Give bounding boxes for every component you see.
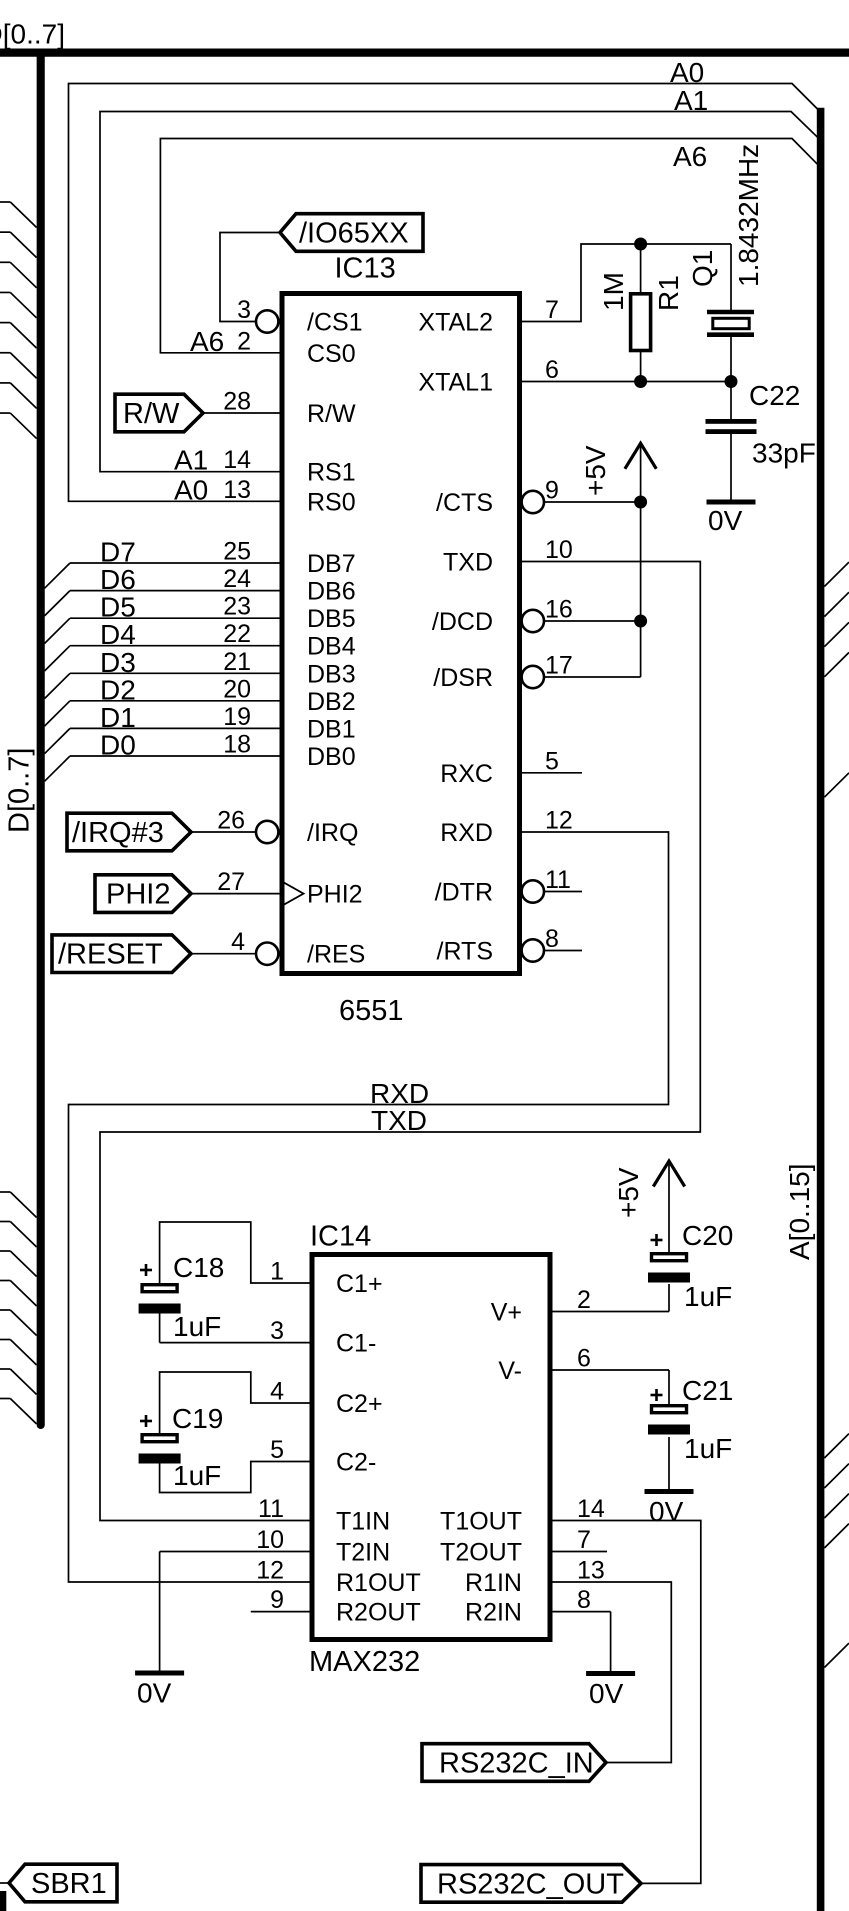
svg-text:0V: 0V [649, 1496, 684, 1527]
power +5V arrow (C20) [653, 1161, 684, 1252]
IC U14 MAX232 body [312, 1255, 550, 1640]
svg-text:13: 13 [577, 1557, 605, 1585]
flag PHI2 [95, 875, 191, 913]
label D0 [100, 730, 136, 761]
hatch marks right top (A bus) [824, 562, 849, 797]
label C21 [682, 1375, 733, 1406]
wire T1OUT pin 14 to RS232C_OUT [550, 1521, 701, 1884]
svg-text:7: 7 [545, 296, 559, 324]
svg-text:SBR1: SBR1 [31, 1868, 107, 1900]
junction rail pin16 [634, 615, 647, 628]
hatch marks left bottom (D bus) [0, 1192, 37, 1424]
wire V+ pin 2 to C20 [550, 1284, 669, 1312]
junction +5V pin9 [634, 496, 647, 509]
bus D[0..7] vertical [37, 53, 45, 1425]
svg-text:DB4: DB4 [307, 633, 356, 661]
label RXD [370, 1078, 429, 1109]
svg-text:/IRQ#3: /IRQ#3 [72, 817, 164, 849]
svg-text:5: 5 [545, 747, 559, 775]
IC13 pin 23 DB5 [223, 593, 355, 634]
svg-text:1uF: 1uF [684, 1281, 732, 1312]
IC13 pin 9 /CTS [436, 477, 559, 518]
svg-text:0V: 0V [589, 1678, 624, 1709]
wire net D1 [45, 728, 283, 753]
svg-text:C1+: C1+ [336, 1270, 383, 1298]
svg-text:D[0..7]: D[0..7] [0, 19, 65, 50]
svg-text:A6: A6 [190, 326, 224, 357]
svg-text:7: 7 [577, 1526, 591, 1554]
svg-text:1uF: 1uF [173, 1460, 221, 1491]
wire C18 top to pin 1 [160, 1222, 312, 1283]
svg-text:1uF: 1uF [684, 1433, 732, 1464]
svg-text:14: 14 [577, 1495, 605, 1523]
svg-text:/DTR: /DTR [435, 879, 493, 907]
IC13 pin 11 /DTR [435, 866, 582, 907]
label A1 (at pin 14) [174, 445, 208, 476]
svg-text:/DSR: /DSR [433, 664, 493, 692]
IC13 pin 21 DB3 [223, 648, 355, 689]
flag /IO65XX [280, 214, 423, 252]
label C20 [682, 1220, 733, 1251]
svg-text:D1: D1 [100, 702, 136, 733]
svg-text:12: 12 [256, 1557, 284, 1585]
bus label D[0..7] vertical [4, 748, 36, 833]
svg-text:8: 8 [545, 925, 559, 953]
IC14 pin 6 V- [498, 1345, 591, 1386]
svg-text:C18: C18 [173, 1252, 224, 1283]
svg-text:2: 2 [577, 1286, 591, 1314]
wire C18 bottom to pin 3 [160, 1314, 312, 1343]
svg-text:19: 19 [223, 703, 251, 731]
svg-text:25: 25 [223, 538, 251, 566]
hatch marks right bottom (A bus) [824, 1434, 849, 1668]
wire /DSR pin 17 to rail [544, 676, 641, 678]
flag RS232C_IN [422, 1744, 606, 1782]
flag R/W [115, 394, 203, 432]
IC U13 6551 body [282, 294, 520, 974]
IC13 pin 17 /DSR [433, 652, 573, 693]
wire net A6 [160, 139, 817, 353]
svg-text:18: 18 [223, 731, 251, 759]
svg-text:RS1: RS1 [307, 459, 356, 487]
svg-text:/RESET: /RESET [58, 939, 163, 971]
svg-text:A1: A1 [674, 85, 708, 116]
svg-text:DB1: DB1 [307, 715, 356, 743]
svg-text:RS232C_IN: RS232C_IN [439, 1748, 594, 1780]
svg-text:DB0: DB0 [307, 743, 356, 771]
wire net A0 [69, 84, 819, 502]
svg-text:PHI2: PHI2 [106, 879, 170, 911]
label C19 [172, 1403, 223, 1434]
wire C21 to ground [668, 1437, 670, 1489]
svg-text:RXD: RXD [440, 819, 493, 847]
svg-text:D7: D7 [100, 537, 136, 568]
label A0 (top) [670, 57, 704, 88]
svg-text:TXD: TXD [371, 1105, 427, 1136]
svg-text:DB5: DB5 [307, 605, 356, 633]
label /IO65XX [299, 218, 409, 250]
IC13 pin 3 /CS1 [237, 296, 363, 337]
svg-text:33pF: 33pF [752, 438, 816, 469]
wire V- pin 6 to C21 [550, 1370, 669, 1404]
wire C19 bottom to pin 5 [160, 1462, 312, 1493]
svg-text:/RTS: /RTS [437, 938, 494, 966]
label 6551 [339, 995, 404, 1027]
svg-text:/CTS: /CTS [436, 489, 493, 517]
svg-text:+5V: +5V [580, 445, 611, 496]
svg-text:0V: 0V [708, 505, 743, 536]
IC13 pin 5 RXC [440, 747, 582, 788]
label C22 [749, 380, 800, 411]
wire +5V rail vertical [640, 502, 642, 677]
IC14 pin 10 T2IN [256, 1526, 390, 1567]
label A6 (at pin 2) [190, 326, 224, 357]
IC14 pin 13 R1IN [465, 1557, 605, 1598]
bus D[0..7] horizontal (top) [0, 48, 849, 56]
svg-text:1M: 1M [598, 272, 629, 311]
resistor R1 [631, 244, 651, 382]
ground at C21 [645, 1489, 694, 1494]
wire net D4 [45, 646, 283, 671]
wire net D2 [45, 701, 283, 726]
svg-text:/CS1: /CS1 [307, 309, 363, 337]
flag RS232C_OUT [421, 1865, 641, 1903]
label D6 [100, 564, 136, 595]
label PHI2 [106, 879, 170, 911]
bus A[0..15] vertical [817, 108, 825, 1911]
svg-text:T2IN: T2IN [336, 1539, 390, 1567]
svg-text:IC13: IC13 [335, 253, 396, 285]
IC13 pin 25 DB7 [223, 538, 355, 579]
svg-text:D5: D5 [100, 592, 136, 623]
label 0V right [589, 1678, 624, 1709]
IC13 pin 10 TXD [443, 536, 573, 577]
wire R1IN pin 13 to RS232C_IN [550, 1582, 671, 1763]
svg-text:17: 17 [545, 652, 573, 680]
svg-text:DB3: DB3 [307, 660, 356, 688]
label D5 [100, 592, 136, 623]
svg-text:28: 28 [223, 388, 251, 416]
svg-text:TXD: TXD [443, 549, 493, 577]
capacitor C18 [139, 1285, 181, 1314]
svg-text:11: 11 [258, 1495, 284, 1523]
svg-text:XTAL1: XTAL1 [418, 369, 493, 397]
cut-off mark bottom left [0, 1891, 6, 1911]
svg-text:/RES: /RES [307, 941, 365, 969]
junction at R1 top [634, 238, 647, 251]
wire XTAL2 pin 7 net [520, 244, 732, 322]
label MAX232 [309, 1646, 420, 1678]
IC13 pin 20 DB2 [223, 675, 355, 716]
label RS232C_OUT [437, 1869, 624, 1901]
svg-text:XTAL2: XTAL2 [418, 309, 493, 337]
svg-text:A1: A1 [174, 445, 208, 476]
svg-text:2: 2 [237, 327, 251, 355]
wire net D6 [45, 591, 283, 616]
label IC14 [310, 1221, 371, 1253]
svg-text:C2-: C2- [336, 1449, 376, 1477]
label /IRQ#3 [72, 817, 164, 849]
wire PHI2 to pin 27 [191, 893, 282, 895]
svg-text:C22: C22 [749, 380, 800, 411]
wire /CTS pin 9 to +5V [544, 501, 641, 503]
IC13 pin 14 RS1 [223, 446, 355, 487]
svg-text:10: 10 [545, 536, 573, 564]
svg-text:12: 12 [545, 807, 573, 835]
svg-text:RS0: RS0 [307, 488, 356, 516]
svg-text:3: 3 [270, 1317, 284, 1345]
wire /RESET to pin 4 [191, 953, 256, 955]
label 0V left [137, 1678, 172, 1709]
svg-text:A0: A0 [174, 474, 208, 505]
label /RESET [58, 939, 163, 971]
svg-text:D4: D4 [100, 619, 136, 650]
label R1 [653, 275, 684, 311]
power +5V arrow (6551) [625, 443, 656, 502]
wire XTAL1 pin 6 net [520, 381, 732, 383]
wire SBR1 stub [0, 1882, 9, 1884]
flag /IRQ#3 [67, 813, 191, 851]
label 1M [598, 272, 629, 311]
label A6 (top) [673, 141, 707, 172]
svg-text:CS0: CS0 [307, 340, 356, 368]
label 0V at C21 [649, 1496, 684, 1527]
flag /RESET [52, 935, 191, 973]
bus label A[0..15] vertical [784, 1163, 815, 1260]
wire net D0 [45, 756, 283, 781]
wire net RXD [69, 832, 669, 1582]
capacitor C19 [139, 1435, 181, 1464]
svg-text:A[0..15]: A[0..15] [784, 1163, 815, 1260]
IC14 pin 7 T2OUT [440, 1526, 591, 1567]
label + C19 [140, 1415, 152, 1427]
wire /DCD pin 16 to rail [544, 620, 641, 622]
IC14 pin 5 C2- [270, 1436, 376, 1477]
capacitor C22 [706, 382, 757, 500]
wire net D7 [45, 563, 283, 588]
svg-text:D2: D2 [100, 674, 136, 705]
svg-text:/IO65XX: /IO65XX [299, 218, 409, 250]
svg-text:C20: C20 [682, 1220, 733, 1251]
svg-text:10: 10 [256, 1526, 284, 1554]
label + C18 [140, 1264, 152, 1276]
label D7 [100, 537, 136, 568]
junction R1 bottom [634, 375, 647, 388]
capacitor C21 [648, 1406, 690, 1435]
capacitor C20 [648, 1254, 690, 1283]
label 1uF C21 [684, 1433, 732, 1464]
IC14 pin 14 T1OUT [440, 1495, 605, 1536]
svg-text:26: 26 [217, 807, 245, 835]
svg-text:D6: D6 [100, 564, 136, 595]
wire C19 top to pin 4 [160, 1372, 312, 1433]
label + C21 [651, 1389, 663, 1401]
label SBR1 [31, 1868, 107, 1900]
IC14 pin 8 R2IN [465, 1586, 591, 1627]
svg-text:RS232C_OUT: RS232C_OUT [437, 1869, 624, 1901]
svg-text:21: 21 [223, 648, 251, 676]
flag SBR1 [9, 1864, 117, 1902]
label 1uF C19 [173, 1460, 221, 1491]
svg-text:6: 6 [577, 1345, 591, 1373]
svg-text:C1-: C1- [336, 1330, 376, 1358]
svg-text:R1: R1 [653, 275, 684, 311]
label D4 [100, 619, 136, 650]
label TXD [371, 1105, 427, 1136]
svg-text:R1IN: R1IN [465, 1569, 522, 1597]
bus label D[0..7] top [0, 19, 65, 50]
IC13 pin 4 /RES [231, 928, 365, 969]
svg-text:RXC: RXC [440, 760, 493, 788]
svg-text:D3: D3 [100, 647, 136, 678]
wire T2OUT pin 7 stub [550, 1551, 607, 1553]
IC14 pin 11 T1IN [258, 1495, 390, 1536]
svg-text:1: 1 [270, 1258, 284, 1286]
svg-text:R/W: R/W [123, 398, 180, 430]
svg-text:D[0..7]: D[0..7] [4, 748, 36, 833]
svg-text:DB2: DB2 [307, 688, 356, 716]
label 0V at C22 [708, 505, 743, 536]
IC13 pin 19 DB1 [223, 703, 355, 744]
svg-text:R2IN: R2IN [465, 1599, 522, 1627]
label A0 (at pin 13) [174, 474, 208, 505]
svg-text:IC14: IC14 [310, 1221, 371, 1253]
svg-text:1uF: 1uF [173, 1311, 221, 1342]
IC14 pin 9 R2OUT [270, 1586, 421, 1627]
IC13 pin 16 /DCD [432, 596, 573, 637]
label 33pF [752, 438, 816, 469]
IC13 pin 12 RXD [440, 807, 573, 848]
svg-text:/IRQ: /IRQ [307, 819, 358, 847]
IC13 pin 28 R/W [223, 388, 356, 429]
label 1.8432MHz [733, 144, 764, 287]
svg-text:A0: A0 [670, 57, 704, 88]
IC13 pin 24 DB6 [223, 565, 355, 606]
IC13 pin 27 PHI2 [217, 868, 362, 909]
IC13 pin 13 RS0 [223, 476, 355, 517]
IC13 pin 7 XTAL2 [418, 296, 558, 337]
wire net A1 [100, 112, 818, 472]
label A1 (top) [674, 85, 708, 116]
svg-text:+5V: +5V [613, 1167, 644, 1218]
svg-text:R1OUT: R1OUT [336, 1569, 421, 1597]
svg-text:6: 6 [545, 356, 559, 384]
IC14 pin 3 C1- [270, 1317, 376, 1358]
wire net TXD [100, 562, 700, 1521]
wire net D3 [45, 673, 283, 698]
label D2 [100, 674, 136, 705]
svg-text:24: 24 [223, 565, 251, 593]
svg-text:DB6: DB6 [307, 578, 356, 606]
wire R/W to pin 28 [203, 412, 282, 414]
svg-text:MAX232: MAX232 [309, 1646, 420, 1678]
svg-text:/DCD: /DCD [432, 608, 493, 636]
svg-text:R2OUT: R2OUT [336, 1599, 421, 1627]
svg-text:C2+: C2+ [336, 1390, 383, 1418]
ground at C22 [707, 500, 756, 505]
svg-text:4: 4 [270, 1378, 284, 1406]
IC14 pin 1 C1+ [270, 1258, 382, 1299]
wire R2OUT pin 9 stub [251, 1611, 312, 1613]
label IC13 [335, 253, 396, 285]
svg-text:22: 22 [223, 620, 251, 648]
crystal Q1 [707, 244, 754, 382]
svg-text:A6: A6 [673, 141, 707, 172]
svg-text:Q1: Q1 [687, 250, 718, 287]
label 1uF C20 [684, 1281, 732, 1312]
svg-text:14: 14 [223, 446, 251, 474]
svg-text:C21: C21 [682, 1375, 733, 1406]
IC13 pin 18 DB0 [223, 731, 355, 772]
IC13 pin 8 /RTS [437, 925, 583, 966]
label + C20 [651, 1234, 663, 1246]
wire R2IN pin 8 to ground [550, 1612, 611, 1671]
IC13 pin 22 DB4 [223, 620, 356, 661]
svg-text:11: 11 [545, 866, 571, 894]
svg-text:DB7: DB7 [307, 550, 356, 578]
label 1uF C18 [173, 1311, 221, 1342]
IC13 pin 2 CS0 [237, 327, 356, 368]
ground at R2IN [586, 1671, 635, 1676]
svg-text:6551: 6551 [339, 995, 404, 1027]
svg-text:1.8432MHz: 1.8432MHz [733, 144, 764, 287]
svg-text:T1IN: T1IN [336, 1508, 390, 1536]
ground at T2IN [135, 1671, 184, 1676]
label Q1 [687, 250, 718, 287]
label C18 [173, 1252, 224, 1283]
label RS232C_IN [439, 1748, 594, 1780]
svg-text:D0: D0 [100, 730, 136, 761]
svg-text:0V: 0V [137, 1678, 172, 1709]
svg-text:9: 9 [545, 477, 559, 505]
svg-text:13: 13 [223, 476, 251, 504]
svg-text:20: 20 [223, 675, 251, 703]
label R/W [123, 398, 180, 430]
svg-text:3: 3 [237, 296, 251, 324]
hatch marks left top (D bus) [0, 202, 37, 439]
wire /IRQ#3 to pin 26 [191, 831, 256, 833]
svg-text:V+: V+ [491, 1299, 522, 1327]
IC13 pin 6 XTAL1 [418, 356, 558, 397]
svg-text:9: 9 [270, 1586, 284, 1614]
svg-text:27: 27 [217, 868, 245, 896]
svg-text:8: 8 [577, 1586, 591, 1614]
svg-text:5: 5 [270, 1436, 284, 1464]
label D1 [100, 702, 136, 733]
IC14 pin 12 R1OUT [256, 1557, 421, 1598]
svg-text:T1OUT: T1OUT [440, 1508, 522, 1536]
IC13 pin 26 /IRQ [217, 807, 358, 848]
svg-text:4: 4 [231, 928, 245, 956]
svg-text:R/W: R/W [307, 400, 356, 428]
IC14 pin 4 C2+ [270, 1378, 382, 1419]
label +5V (6551) [580, 445, 611, 496]
svg-text:16: 16 [545, 596, 573, 624]
svg-text:T2OUT: T2OUT [440, 1539, 522, 1567]
label +5V (C20) [613, 1167, 644, 1218]
wire net D5 [45, 618, 283, 643]
label D3 [100, 647, 136, 678]
wire /IO65XX to pin 3 [220, 233, 280, 322]
svg-text:PHI2: PHI2 [307, 881, 363, 909]
svg-text:C19: C19 [172, 1403, 223, 1434]
svg-text:23: 23 [223, 593, 251, 621]
wire T2IN pin 10 to ground [160, 1552, 312, 1672]
junction crystal bottom [725, 375, 738, 388]
svg-text:V-: V- [498, 1357, 522, 1385]
IC14 pin 2 V+ [491, 1286, 591, 1327]
